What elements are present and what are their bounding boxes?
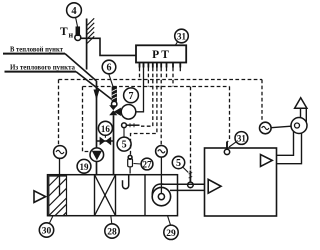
svg-text:28: 28	[107, 228, 117, 238]
supply air arrow in room	[208, 179, 221, 193]
wire sensor Tn to regulator PT	[81, 38, 136, 55]
heater coil 28 (X section)	[95, 175, 116, 216]
AHU casing	[48, 175, 178, 216]
air filter / damper (hatched) pos.30	[49, 176, 67, 216]
dashed drop to damper motor	[58, 80, 60, 146]
wall (hatched)	[87, 18, 95, 69]
svg-text:Из теплового пункта: Из теплового пункта	[10, 63, 75, 71]
exhaust air arrow in room	[261, 155, 273, 167]
svg-text:31: 31	[177, 32, 187, 42]
callout 16	[98, 121, 112, 138]
svg-text:5: 5	[176, 158, 181, 169]
callout 31b	[229, 132, 248, 147]
flow arrow on V1	[94, 90, 100, 101]
callout 7	[124, 88, 139, 103]
bypass bridge pipe	[97, 140, 114, 142]
svg-text:31: 31	[237, 134, 247, 144]
sensor 6 thermowell on supply pipe	[112, 87, 117, 107]
callout 19	[77, 159, 91, 173]
svg-text:16: 16	[101, 124, 111, 134]
dashed drop to room sensor 31	[227, 87, 229, 143]
svg-text:27: 27	[143, 160, 153, 170]
callout 30	[39, 216, 53, 238]
svg-text:Т: Т	[60, 26, 68, 38]
svg-text:В тепловой пункт: В тепловой пункт	[10, 45, 64, 53]
PT pins	[140, 63, 181, 68]
sensor 5a bulb and stem (after valve)	[122, 123, 140, 128]
callout 28	[105, 216, 119, 239]
svg-text:7: 7	[129, 91, 134, 102]
dashed rail 2 (y=86.5)	[83, 86, 230, 88]
svg-text:4: 4	[71, 6, 77, 17]
room (served space)	[205, 148, 277, 216]
sensor Tn (outdoor temperature sensor)	[60, 26, 81, 41]
regulator PT (U31)	[136, 45, 186, 62]
dashed drop to duct sensor 5b	[190, 87, 192, 171]
pipe V1 (return riser)	[96, 81, 98, 148]
callout 6	[102, 60, 116, 86]
callout 4	[67, 3, 82, 27]
exhaust outlet arrow	[295, 98, 307, 109]
capillary sensor 27	[128, 155, 133, 173]
label: В тепловой пункт	[3, 45, 65, 53]
callout 29	[164, 216, 178, 240]
valve actuator (circle)	[121, 105, 136, 120]
svg-text:29: 29	[166, 229, 176, 239]
pipe V2 (supply riser below valve)	[113, 115, 115, 175]
dashed rail 1 (y=79.5)	[59, 79, 263, 81]
air inlet arrow	[34, 191, 46, 203]
callout 27	[134, 158, 153, 170]
callout 5a	[117, 128, 131, 151]
valve 16 (manual, on bypass)	[100, 137, 112, 146]
label: Из теплового пункта	[5, 63, 77, 71]
svg-text:5: 5	[122, 140, 127, 151]
callout 31 (regulator)	[175, 29, 189, 45]
motor M30 (damper drive)	[54, 146, 67, 196]
exhaust fan (scroll)	[291, 108, 307, 133]
supply fan 29 (scroll)	[152, 184, 204, 206]
svg-text:30: 30	[42, 227, 52, 237]
motor M29 (supply fan drive)	[156, 146, 168, 194]
duct sensor 5b	[188, 171, 194, 188]
svg-text:6: 6	[107, 63, 112, 74]
pump 19	[90, 148, 104, 162]
dashed pin drops from PT	[131, 68, 181, 156]
callout 5b	[172, 156, 188, 172]
exhaust duct from room to fan	[277, 131, 302, 163]
three-way valve V7	[109, 105, 121, 116]
svg-text:РТ: РТ	[152, 49, 171, 61]
pipe slant 1 (to heat point)	[65, 54, 97, 81]
capillary hook inside duct	[123, 175, 129, 189]
svg-text:н: н	[69, 31, 74, 40]
exhaust fan motor	[260, 122, 292, 134]
control line PT to actuator (solid)	[136, 63, 144, 112]
room sensor 31	[224, 142, 229, 155]
pipe slant 2 (from heat point)	[76, 72, 113, 100]
AHU section dividers	[95, 175, 146, 216]
svg-text:19: 19	[80, 162, 90, 172]
dashed drop to pump 19	[83, 87, 90, 152]
dashed drop to exhaust fan motor	[261, 80, 263, 123]
